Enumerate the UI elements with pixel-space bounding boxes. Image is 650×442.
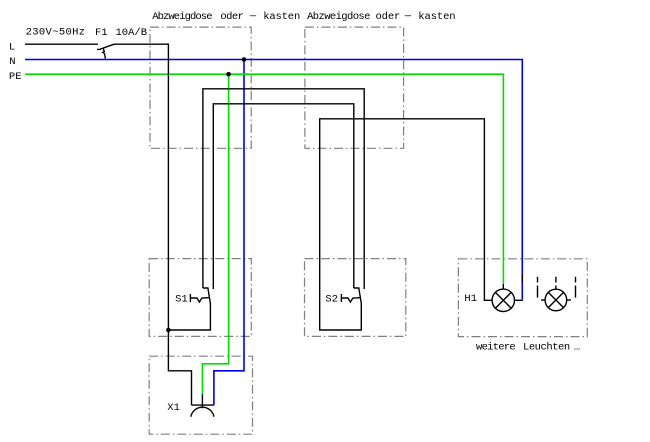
svg-text:—: —: [249, 11, 257, 23]
svg-text:weitere: weitere: [476, 342, 515, 354]
svg-text:S1: S1: [175, 293, 188, 305]
svg-text:L: L: [9, 41, 15, 53]
svg-text:PE: PE: [9, 71, 22, 83]
svg-text:—: —: [404, 11, 412, 23]
svg-text:kasten: kasten: [263, 11, 300, 23]
svg-text:oder: oder: [376, 11, 401, 23]
svg-text:X1: X1: [167, 402, 180, 414]
svg-text:…: …: [574, 342, 580, 354]
svg-text:F1: F1: [95, 27, 108, 39]
svg-text:230V~50Hz: 230V~50Hz: [26, 27, 86, 39]
svg-text:oder: oder: [220, 11, 243, 23]
svg-text:10A/B: 10A/B: [116, 27, 148, 39]
svg-text:Abzweigdose: Abzweigdose: [307, 11, 370, 23]
svg-text:H1: H1: [464, 293, 477, 305]
svg-text:S2: S2: [325, 293, 338, 305]
svg-text:Abzweigdose: Abzweigdose: [152, 11, 212, 23]
svg-text:N: N: [9, 56, 15, 68]
svg-text:Leuchten: Leuchten: [523, 342, 570, 354]
svg-text:kasten: kasten: [418, 11, 455, 23]
